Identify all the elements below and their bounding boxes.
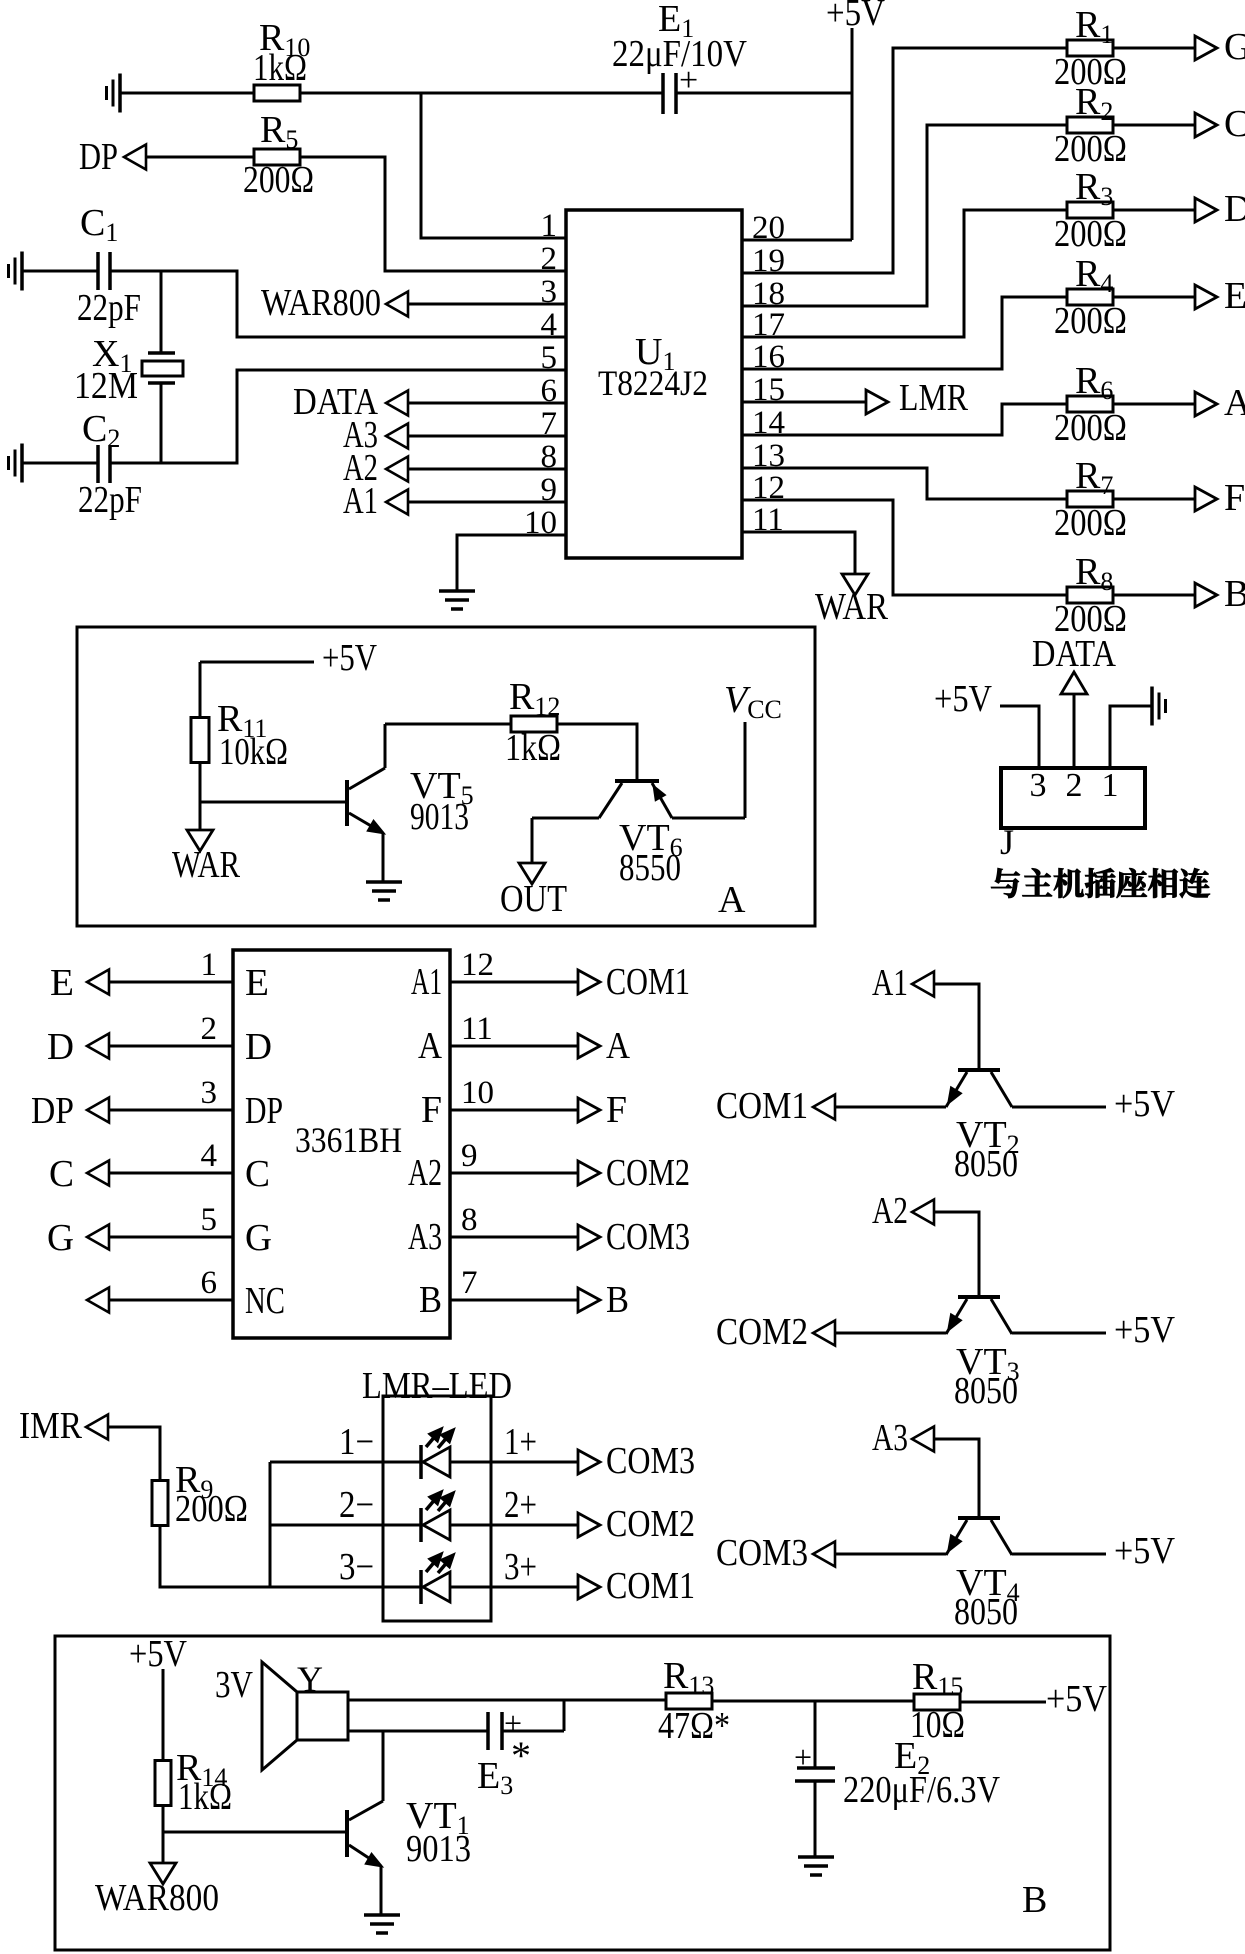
node COM2 (emitter of VT3) — [716, 1311, 946, 1353]
resistor R3 200Ω — [1054, 166, 1127, 255]
resistor R4 200Ω — [1054, 253, 1127, 342]
svg-text:1kΩ: 1kΩ — [505, 727, 561, 769]
wire (R14 to VT1 base) — [163, 1805, 345, 1832]
svg-text:+5V: +5V — [129, 1633, 187, 1675]
+5V (collector of VT2) — [1012, 1083, 1175, 1125]
resistor R15 10Ω — [910, 1656, 965, 1746]
node WAR output (pin11) — [742, 532, 889, 628]
svg-text:3−: 3− — [339, 1546, 374, 1588]
svg-text:1: 1 — [541, 208, 558, 244]
svg-text:5: 5 — [541, 340, 558, 376]
node COM1 (emitter of VT2) — [716, 1085, 946, 1127]
transistor VT2 8050 — [946, 1070, 1020, 1185]
svg-text:5: 5 — [201, 1202, 218, 1238]
svg-text:E: E — [1224, 275, 1245, 317]
node VCC — [724, 679, 782, 818]
svg-text:C: C — [1224, 103, 1245, 145]
node COM1 (LED 3 anode) — [578, 1565, 695, 1607]
capacitor C2 22pF — [22, 408, 142, 521]
connector J — [1000, 767, 1145, 862]
wire pin20 to +5V — [742, 239, 852, 242]
svg-text:1+: 1+ — [504, 1421, 537, 1463]
ground (C2 left) — [9, 444, 23, 483]
node D output — [1113, 188, 1245, 230]
wire pin19 to R1 — [742, 48, 1068, 273]
transistor VT1 9013 — [347, 1731, 471, 1915]
ground (top-left rail) — [107, 74, 121, 113]
transistor VT5 9013 — [347, 724, 474, 882]
node A1 (base of VT2) — [872, 962, 979, 1068]
svg-text:DP: DP — [245, 1090, 283, 1132]
svg-text:COM1: COM1 — [606, 961, 690, 1003]
svg-text:9013: 9013 — [410, 796, 469, 838]
node WAR800 (box B) — [95, 1832, 219, 1919]
svg-text:B: B — [1224, 573, 1245, 615]
wire (R9 to LED cathodes) — [160, 1462, 270, 1587]
capacitor E2 220µF/6.3V — [794, 1701, 1000, 1857]
svg-text:9: 9 — [541, 472, 558, 508]
svg-text:22pF: 22pF — [77, 287, 141, 329]
resistor R9 200Ω — [152, 1459, 248, 1530]
svg-text:200Ω: 200Ω — [1054, 502, 1127, 544]
svg-text:3: 3 — [201, 1075, 218, 1111]
svg-text:A3: A3 — [408, 1216, 442, 1258]
+5V (top rail) — [826, 0, 885, 240]
node C (3361BH pin 4) — [49, 1138, 270, 1195]
wire pin14 to R6 — [742, 404, 1068, 435]
wire (R11 to VT5 base) — [200, 762, 345, 802]
svg-text:8550: 8550 — [619, 847, 681, 889]
node COM1 (3361BH pin 12) — [411, 947, 690, 1003]
resistor R12 1kΩ — [385, 676, 561, 769]
resistor R8 200Ω — [1054, 551, 1127, 640]
svg-text:OUT: OUT — [500, 878, 567, 920]
svg-text:A2: A2 — [872, 1190, 908, 1232]
wire pin18 to R2 — [742, 125, 1068, 306]
svg-text:COM1: COM1 — [606, 1565, 695, 1607]
+5V (box A) — [200, 637, 377, 679]
resistor R10 1kΩ — [253, 17, 310, 101]
svg-text:10: 10 — [524, 505, 557, 541]
resistor R1 200Ω — [1054, 4, 1127, 93]
ground (E2) — [798, 1857, 834, 1875]
node B output — [1113, 573, 1245, 615]
resistor R14 1kΩ — [155, 1747, 232, 1818]
svg-text:12M: 12M — [74, 365, 138, 407]
svg-text:D: D — [47, 1026, 74, 1068]
svg-text:COM2: COM2 — [606, 1152, 690, 1194]
svg-text:3361BH: 3361BH — [295, 1120, 402, 1160]
node D (3361BH pin 2) — [47, 1011, 272, 1068]
node COM3 (emitter of VT4) — [716, 1532, 946, 1574]
svg-text:B: B — [1022, 1879, 1047, 1921]
wire (R5 to pin2) — [300, 157, 566, 271]
ground (VT5 emitter) — [366, 882, 402, 900]
svg-text:2+: 2+ — [504, 1484, 537, 1526]
resistor R6 200Ω — [1054, 360, 1127, 449]
svg-text:A: A — [1224, 382, 1245, 424]
+5V (collector of VT3) — [1012, 1309, 1175, 1351]
crystal X1 12M — [74, 271, 183, 463]
wire pin13 to R7 — [742, 468, 1068, 499]
svg-text:WAR800: WAR800 — [95, 1877, 219, 1919]
svg-text:8050: 8050 — [954, 1591, 1018, 1633]
node COM2 (LED 2 anode) — [578, 1503, 695, 1545]
svg-text:10: 10 — [461, 1075, 494, 1111]
wire (C2 to pin5) — [110, 370, 566, 463]
svg-text:+5V: +5V — [1114, 1083, 1175, 1125]
node DATA input — [293, 381, 566, 423]
svg-text:IMR: IMR — [19, 1405, 83, 1447]
resistor R5 200Ω — [243, 109, 314, 201]
svg-text:A1: A1 — [343, 480, 378, 522]
ground (U1 pin10) — [439, 591, 475, 609]
svg-text:200Ω: 200Ω — [243, 159, 314, 201]
resistor R11 10kΩ — [191, 662, 288, 773]
LED 2 (LMR-LED row 2) — [270, 1484, 578, 1542]
capacitor E1 22µF/10V — [612, 0, 747, 114]
LED 1 (LMR-LED row 1) — [270, 1421, 578, 1479]
svg-text:J: J — [1000, 822, 1014, 862]
svg-text:NC: NC — [245, 1280, 285, 1322]
svg-text:3V: 3V — [215, 1664, 253, 1706]
svg-text:2: 2 — [541, 241, 558, 277]
svg-text:2−: 2− — [339, 1484, 374, 1526]
svg-text:COM2: COM2 — [606, 1503, 695, 1545]
node COM3 (3361BH pin 8) — [408, 1202, 690, 1258]
svg-text:C: C — [245, 1153, 270, 1195]
LED module LMR-LED (box) — [362, 1365, 512, 1621]
svg-text:8: 8 — [541, 439, 558, 475]
capacitor C1 22pF — [22, 202, 141, 329]
node DP output — [79, 136, 254, 178]
display driver 3361BH (IC body) — [233, 950, 450, 1338]
svg-text:6: 6 — [201, 1265, 218, 1301]
svg-text:A1: A1 — [872, 962, 908, 1004]
wire pin12 to R8 — [742, 500, 1068, 595]
node A3 input — [343, 414, 566, 456]
svg-text:G: G — [245, 1217, 272, 1259]
svg-text:10kΩ: 10kΩ — [219, 731, 288, 773]
svg-text:22pF: 22pF — [78, 479, 142, 521]
svg-text:7: 7 — [461, 1265, 478, 1301]
svg-text:200Ω: 200Ω — [175, 1488, 248, 1530]
svg-text:7: 7 — [541, 406, 558, 442]
svg-text:A2: A2 — [408, 1152, 442, 1194]
svg-text:DP: DP — [31, 1090, 74, 1132]
wire pin16 to R4 — [742, 297, 1068, 369]
+5V (box B right) — [961, 1678, 1107, 1720]
svg-text:47Ω*: 47Ω* — [658, 1705, 730, 1747]
wire (pin10 to ground) — [457, 535, 566, 591]
svg-text:+5V: +5V — [1114, 1530, 1175, 1572]
svg-text:A: A — [718, 879, 746, 921]
label 与主机插座相连 — [991, 868, 1210, 898]
svg-text:C: C — [49, 1153, 74, 1195]
wire (E1 to +5V riser) — [676, 92, 852, 95]
svg-text:+5V: +5V — [322, 637, 377, 679]
svg-text:WAR: WAR — [815, 586, 889, 628]
resistor R13 47Ω* — [658, 1655, 730, 1747]
svg-text:COM1: COM1 — [716, 1085, 808, 1127]
+5V (to J pin3) — [934, 678, 1039, 768]
node NC (3361BH pin 6) — [87, 1265, 285, 1322]
svg-text:2: 2 — [201, 1011, 218, 1047]
svg-text:9013: 9013 — [406, 1828, 471, 1870]
svg-text:+5V: +5V — [826, 0, 885, 34]
svg-text:A1: A1 — [411, 961, 442, 1003]
svg-text:3: 3 — [1030, 767, 1047, 804]
svg-text:+: + — [794, 1739, 812, 1775]
svg-text:1: 1 — [201, 947, 218, 983]
transistor VT6 8550 — [532, 781, 745, 889]
node DP (3361BH pin 3) — [31, 1075, 283, 1132]
box B enclosure — [55, 1636, 1110, 1950]
svg-text:D: D — [245, 1026, 272, 1068]
wire (ground to R10) — [120, 92, 254, 95]
svg-text:+5V: +5V — [934, 678, 992, 720]
svg-text:WAR800: WAR800 — [261, 282, 381, 324]
node OUT — [500, 818, 567, 920]
+5V (box B) — [129, 1633, 187, 1760]
svg-text:COM3: COM3 — [606, 1440, 695, 1482]
pin numbers U1 left (1-10) — [524, 208, 557, 541]
node A output — [1113, 382, 1245, 424]
transistor VT4 8050 — [946, 1518, 1020, 1633]
resistor R2 200Ω — [1054, 81, 1127, 170]
svg-text:8050: 8050 — [954, 1143, 1018, 1185]
node F (3361BH pin 10) — [421, 1075, 627, 1131]
wire (rail to U1 pin1) — [421, 93, 566, 238]
svg-text:3: 3 — [541, 274, 558, 310]
svg-text:1kΩ: 1kΩ — [178, 1776, 232, 1818]
wire (speaker top to R13) — [348, 1699, 666, 1702]
svg-text:6: 6 — [541, 373, 558, 409]
svg-text:T8224J2: T8224J2 — [598, 363, 708, 403]
svg-text:2: 2 — [1066, 767, 1083, 804]
svg-text:LMR: LMR — [899, 377, 969, 419]
wire (R13 to R15) — [713, 1700, 914, 1703]
svg-text:B: B — [606, 1279, 629, 1321]
svg-text:1−: 1− — [339, 1421, 374, 1463]
svg-text:3+: 3+ — [504, 1546, 537, 1588]
svg-text:E: E — [50, 962, 74, 1004]
svg-text:11: 11 — [461, 1011, 493, 1047]
svg-text:G: G — [47, 1217, 74, 1259]
svg-text:DP: DP — [79, 136, 118, 178]
svg-text:F: F — [606, 1089, 627, 1131]
svg-text:4: 4 — [201, 1138, 218, 1174]
svg-text:200Ω: 200Ω — [1054, 300, 1127, 342]
node A (3361BH pin 11) — [418, 1011, 630, 1067]
svg-text:8: 8 — [461, 1202, 478, 1238]
svg-text:DATA: DATA — [1032, 633, 1116, 675]
svg-text:F: F — [421, 1089, 442, 1131]
svg-text:A: A — [606, 1025, 630, 1067]
node COM2 (3361BH pin 9) — [408, 1138, 690, 1194]
svg-text:200Ω: 200Ω — [1054, 128, 1127, 170]
capacitor E3 (series) — [348, 1700, 564, 1800]
wire (R12 to VT6 base) — [557, 724, 637, 779]
svg-text:12: 12 — [461, 947, 494, 983]
transistor VT3 8050 — [946, 1297, 1020, 1412]
ground (VT1 emitter) — [364, 1915, 400, 1933]
svg-text:220μF/6.3V: 220μF/6.3V — [843, 1769, 1000, 1811]
wire (R10 to E1) — [300, 92, 663, 95]
svg-text:Y: Y — [297, 1659, 323, 1699]
svg-text:+5V: +5V — [1046, 1678, 1107, 1720]
svg-text:D: D — [1224, 188, 1245, 230]
svg-text:A: A — [418, 1025, 442, 1067]
svg-text:E: E — [245, 962, 269, 1004]
node A2 (base of VT3) — [872, 1190, 979, 1295]
svg-text:COM3: COM3 — [716, 1532, 808, 1574]
node A1 input — [343, 480, 566, 522]
node IMR input — [19, 1405, 160, 1480]
svg-text:G: G — [1224, 26, 1245, 68]
pin numbers U1 right (11-20) — [752, 210, 785, 538]
IC U1 T8224J2 (body) — [566, 210, 742, 558]
node DATA (to J pin2) — [1032, 633, 1116, 768]
node C output — [1113, 103, 1245, 145]
wire (C1 to pin4) — [110, 271, 566, 337]
node G output — [1113, 26, 1245, 68]
node COM3 (LED 1 anode) — [578, 1440, 695, 1482]
node G (3361BH pin 5) — [47, 1202, 272, 1259]
svg-text:200Ω: 200Ω — [1054, 407, 1127, 449]
node F output — [1113, 477, 1245, 519]
node WAR (box A) — [172, 802, 241, 886]
+5V (collector of VT4) — [1012, 1530, 1175, 1572]
ground (C1 left) — [9, 252, 23, 291]
svg-text:4: 4 — [541, 307, 558, 343]
ground (J pin1) — [1110, 687, 1166, 769]
LED 3 (LMR-LED row 3) — [270, 1546, 578, 1604]
svg-text:F: F — [1224, 477, 1245, 519]
svg-text:B: B — [419, 1279, 442, 1321]
node E (3361BH pin 1) — [50, 947, 269, 1004]
node E output — [1113, 275, 1245, 317]
node A3 (base of VT4) — [872, 1417, 979, 1516]
svg-text:200Ω: 200Ω — [1054, 213, 1127, 255]
svg-text:COM2: COM2 — [716, 1311, 808, 1353]
node B (3361BH pin 7) — [419, 1265, 629, 1321]
node A2 input — [343, 447, 566, 489]
svg-text:10Ω: 10Ω — [910, 1704, 965, 1746]
svg-text:1: 1 — [1102, 767, 1119, 804]
svg-text:1kΩ: 1kΩ — [253, 47, 307, 89]
svg-text:*: * — [511, 1733, 531, 1778]
speaker Y 3V — [215, 1659, 348, 1770]
svg-text:+5V: +5V — [1114, 1309, 1175, 1351]
wire pin17 to R3 — [742, 210, 1068, 337]
svg-text:COM3: COM3 — [606, 1216, 690, 1258]
node LMR output (pin15) — [742, 377, 969, 419]
svg-text:8050: 8050 — [954, 1370, 1018, 1412]
resistor R7 200Ω — [1054, 455, 1127, 544]
svg-text:WAR: WAR — [172, 844, 241, 886]
svg-text:9: 9 — [461, 1138, 478, 1174]
svg-text:A3: A3 — [872, 1417, 908, 1459]
node WAR800 input — [261, 282, 566, 324]
box A enclosure — [77, 627, 815, 926]
